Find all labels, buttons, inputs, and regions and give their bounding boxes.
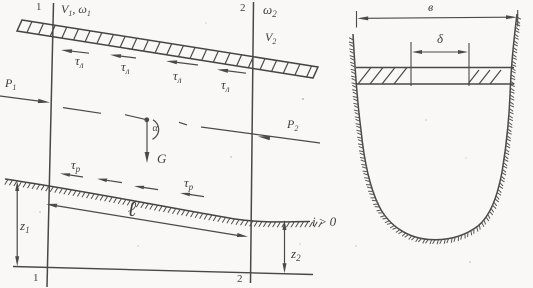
arrow P1 [0, 96, 38, 101]
svg-text:z2: z2 [290, 246, 301, 263]
svg-text:2: 2 [237, 273, 243, 285]
paper specks [302, 98, 304, 100]
ice band hatching left part [358, 68, 407, 85]
channel bottom hatching [5, 179, 322, 227]
dimension line delta [414, 51, 466, 53]
dimension line B [364, 17, 510, 18]
svg-text:1: 1 [33, 272, 39, 284]
arrow tau_l 2 [121, 56, 136, 58]
axis dash c [179, 122, 187, 125]
svg-text:τл: τл [75, 53, 84, 70]
arrow G (weight) [146, 120, 148, 152]
svg-text:1: 1 [36, 1, 42, 13]
svg-text:z1: z1 [19, 218, 30, 235]
cross-section ice band bottom line [356, 83, 514, 85]
arrow tau_l 3 [177, 62, 198, 65]
svg-text:V2: V2 [265, 30, 276, 46]
svg-text:i > 0: i > 0 [312, 214, 337, 229]
svg-text:τл: τл [121, 59, 130, 76]
datum line [13, 267, 313, 275]
axis dash a [63, 108, 101, 114]
svg-text:V1, ω1: V1, ω1 [61, 2, 91, 18]
ice band hatching right part [468, 70, 501, 84]
dimension B extension tick left [356, 11, 358, 28]
axis solid segment with P2 [201, 127, 320, 143]
cross-section ice band top line [356, 67, 514, 69]
dimension z2 [284, 226, 286, 268]
svg-text:ω2: ω2 [263, 2, 277, 19]
arrow tau_l 1 [72, 51, 89, 53]
svg-text:τр: τр [184, 175, 194, 192]
node junction dot [144, 117, 149, 122]
svg-text:τл: τл [221, 77, 230, 94]
svg-text:τл: τл [173, 68, 182, 85]
section line 2-2 [251, 2, 254, 283]
arrow tau_r 3 [144, 188, 158, 190]
dimension delta tick left [410, 42, 412, 86]
svg-text:G: G [157, 151, 167, 166]
axis dash b [125, 115, 146, 120]
ice cover band outline [17, 20, 318, 78]
dimension B extension tick right [517, 10, 519, 27]
arrow tau_r 1 [70, 175, 83, 177]
svg-text:в: в [428, 0, 433, 14]
channel wall hatching [349, 17, 521, 244]
arrow tau_r 4 [190, 195, 204, 197]
svg-text:P1: P1 [4, 76, 16, 92]
svg-text:δ: δ [437, 31, 444, 46]
arrow tau_r 2 [107, 180, 122, 182]
svg-text:τр: τр [71, 157, 81, 174]
arrowhead P2 [258, 136, 270, 140]
channel cross-section outline [353, 14, 517, 240]
angle arc alpha [153, 120, 159, 140]
ice cover band hatching [27, 22, 312, 77]
dimension z1 [16, 188, 18, 259]
svg-text:α: α [153, 123, 159, 134]
dimension line l [55, 206, 239, 236]
channel bottom line [5, 179, 310, 222]
arrow tau_l 4 [228, 71, 246, 73]
dimension delta tick right [468, 43, 470, 86]
section line 1-1 [47, 3, 54, 287]
svg-text:2: 2 [240, 2, 246, 14]
svg-text:ℓ: ℓ [128, 197, 137, 221]
svg-text:P2: P2 [286, 117, 298, 133]
